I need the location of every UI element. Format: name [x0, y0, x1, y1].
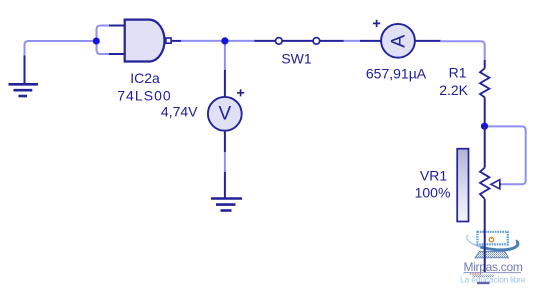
wire ammeter to R1 (corner): [440, 41, 485, 60]
watermark power button: [489, 237, 494, 242]
svg-text:R1: R1: [449, 64, 467, 80]
svg-text:74LS00: 74LS00: [117, 88, 172, 104]
svg-text:A: A: [388, 35, 410, 48]
svg-text:La educación libre: La educación libre: [460, 275, 526, 285]
wire switch to ammeter: [344, 40, 362, 42]
NAND input pin stubs: [109, 26, 125, 55]
wiper pin: [497, 183, 502, 185]
voltmeter body: [208, 97, 242, 131]
wire node A to switch: [225, 40, 256, 42]
voltmeter pin (top): [224, 70, 226, 97]
svg-text:V: V: [219, 104, 232, 125]
ground (middle): [211, 172, 242, 211]
ammeter plus sign: [373, 20, 380, 27]
svg-text:IC2a: IC2a: [130, 70, 160, 86]
junction node B: [481, 123, 488, 130]
voltmeter plus sign: [237, 89, 244, 96]
ammeter pin (left): [360, 40, 381, 42]
output pin wire (dark): [171, 40, 182, 42]
switch SW1: [255, 38, 345, 45]
potentiometer slider: [457, 149, 468, 222]
watermark monitor screen: [477, 232, 507, 245]
watermark hatch bar 2: [477, 282, 490, 284]
svg-text:4,74V: 4,74V: [161, 103, 198, 119]
watermark underline: [464, 272, 522, 274]
potentiometer VR1 zigzag: [480, 168, 489, 199]
svg-text:Mirpas.com: Mirpas.com: [464, 260, 523, 274]
junction node (gate input): [93, 38, 100, 45]
wire node B to wiper (loop right): [488, 126, 526, 184]
junction node A: [221, 37, 228, 44]
NAND gate IC2a body: [125, 20, 165, 62]
watermark red squiggle: [470, 273, 482, 275]
watermark swoosh: [467, 235, 518, 250]
svg-text:2.2K: 2.2K: [439, 82, 468, 98]
resistor R1 zigzag: [480, 68, 489, 97]
watermark keyboard: [475, 251, 509, 257]
NAND gate output bubble: [166, 38, 171, 43]
voltmeter pin (bottom): [224, 131, 226, 152]
wire from left ground to gate input node: [25, 41, 97, 56]
svg-text:657,91µA: 657,91µA: [366, 65, 427, 81]
svg-text:100%: 100%: [415, 185, 451, 201]
wire VR1 bottom (through watermark): [484, 199, 486, 272]
svg-text:SW1: SW1: [281, 50, 312, 66]
resistor R1 pin bottom: [484, 97, 486, 126]
ammeter body: [381, 24, 415, 58]
wire node A down to voltmeter: [224, 41, 226, 71]
ammeter pin (right): [416, 40, 441, 42]
ammeter A glyph (rotated): [388, 35, 410, 48]
watermark hatch bar 1: [473, 275, 495, 278]
wire loop to NAND inputs: [97, 26, 111, 55]
potentiometer VR1 pin top: [484, 126, 486, 168]
resistor R1 pin top: [484, 60, 486, 68]
wire voltmeter to ground: [224, 152, 226, 173]
wire output to node A: [181, 40, 225, 42]
ground (left): [9, 56, 39, 97]
wiper arrow: [491, 180, 500, 189]
svg-text:VR1: VR1: [420, 167, 447, 183]
